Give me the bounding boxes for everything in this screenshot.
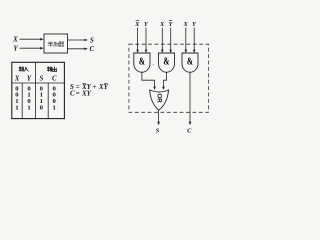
svg-text:1: 1 bbox=[53, 104, 56, 111]
svg-text:XY: XY bbox=[98, 83, 109, 91]
svg-text:X: X bbox=[182, 21, 188, 28]
and-gate U1 bbox=[134, 53, 150, 72]
wire OR output to S bbox=[158, 110, 160, 122]
arrowhead X U3 bbox=[185, 50, 188, 53]
arrowhead U2 to OR bbox=[162, 87, 165, 90]
table header horizontal rule bbox=[12, 82, 65, 84]
arrowhead Ybar U2 bbox=[169, 50, 172, 53]
svg-text:XY: XY bbox=[81, 89, 92, 97]
arrowhead Y U1 bbox=[145, 50, 148, 53]
or-gate U4 bbox=[150, 90, 169, 110]
svg-text:X: X bbox=[134, 21, 140, 28]
svg-text:X: X bbox=[14, 75, 20, 82]
svg-text:S: S bbox=[90, 36, 94, 44]
paper background bbox=[0, 0, 220, 165]
wire input Y bbox=[20, 47, 42, 49]
svg-text:S: S bbox=[40, 75, 44, 82]
truth table data column X bbox=[15, 85, 56, 111]
svg-text:C: C bbox=[70, 89, 75, 97]
svg-text:&: & bbox=[187, 55, 193, 67]
svg-text:+: + bbox=[93, 83, 97, 91]
arrowhead C out bbox=[189, 122, 192, 125]
wire X to U3 bbox=[185, 28, 187, 51]
arrowhead Y U3 bbox=[193, 50, 196, 53]
table outer border bbox=[12, 62, 65, 118]
arrowhead into box from Y bbox=[40, 47, 43, 50]
svg-text:C: C bbox=[89, 45, 94, 53]
CJK text 半加器 (hand drawn) bbox=[48, 42, 64, 47]
and-gate U2 bbox=[159, 53, 175, 72]
svg-text:&: & bbox=[139, 55, 145, 67]
input wires with arrowheads into AND gates bbox=[138, 28, 195, 51]
and-gate U3 bbox=[182, 53, 198, 72]
overbar on X of first term bbox=[82, 83, 86, 85]
svg-text:&: & bbox=[163, 55, 169, 67]
wire Ybar to U2 bbox=[170, 28, 172, 51]
svg-text:OR: OR bbox=[155, 93, 162, 103]
char 加 bbox=[54, 42, 59, 46]
wire output S bbox=[68, 39, 85, 41]
arrowhead into box from X bbox=[40, 38, 43, 41]
half-adder box bbox=[44, 34, 68, 53]
arrowhead C bbox=[84, 48, 87, 51]
svg-text:X: X bbox=[159, 21, 165, 28]
arrowhead S out bbox=[157, 122, 160, 125]
char 器 bbox=[59, 42, 64, 47]
arrowhead U1 to OR bbox=[153, 87, 156, 90]
wire X to U2 bbox=[161, 28, 163, 51]
arrowhead Xbar bbox=[136, 50, 139, 53]
wire Xbar to U1 bbox=[137, 28, 139, 51]
equation C = XY bbox=[70, 89, 92, 97]
equation S = XbarY + XYbar bbox=[70, 83, 109, 91]
svg-text:=: = bbox=[76, 89, 80, 97]
svg-text:Y: Y bbox=[13, 44, 18, 52]
arrowhead X U2 bbox=[161, 50, 164, 53]
wire U1 output to OR input bbox=[142, 72, 155, 87]
wire output C bbox=[68, 48, 85, 50]
overbar on Y of second term bbox=[104, 83, 108, 85]
table divider X|Y vertical bbox=[21, 83, 23, 119]
svg-text:1: 1 bbox=[27, 104, 30, 111]
svg-text:X: X bbox=[12, 35, 18, 43]
speck between U1 and U2 bbox=[153, 64, 154, 65]
CJK header 输入 bbox=[19, 67, 28, 71]
svg-text:S: S bbox=[156, 127, 160, 134]
arrowhead S bbox=[84, 39, 87, 42]
wire Y to U1 bbox=[145, 28, 147, 51]
svg-text:C: C bbox=[52, 75, 57, 82]
svg-text:C: C bbox=[187, 127, 192, 134]
char 半 bbox=[48, 42, 53, 47]
table divider S|C vertical bbox=[47, 83, 49, 119]
wire Y to U3 bbox=[193, 28, 195, 51]
wire U3 output to C bbox=[189, 72, 191, 122]
table divider input/output vertical bbox=[35, 62, 37, 118]
wire input X bbox=[20, 38, 42, 40]
dashed enclosure bbox=[129, 44, 209, 112]
wire U2 output to OR input bbox=[164, 72, 167, 87]
CJK header 输出 bbox=[47, 67, 56, 72]
svg-text:1: 1 bbox=[15, 104, 18, 111]
